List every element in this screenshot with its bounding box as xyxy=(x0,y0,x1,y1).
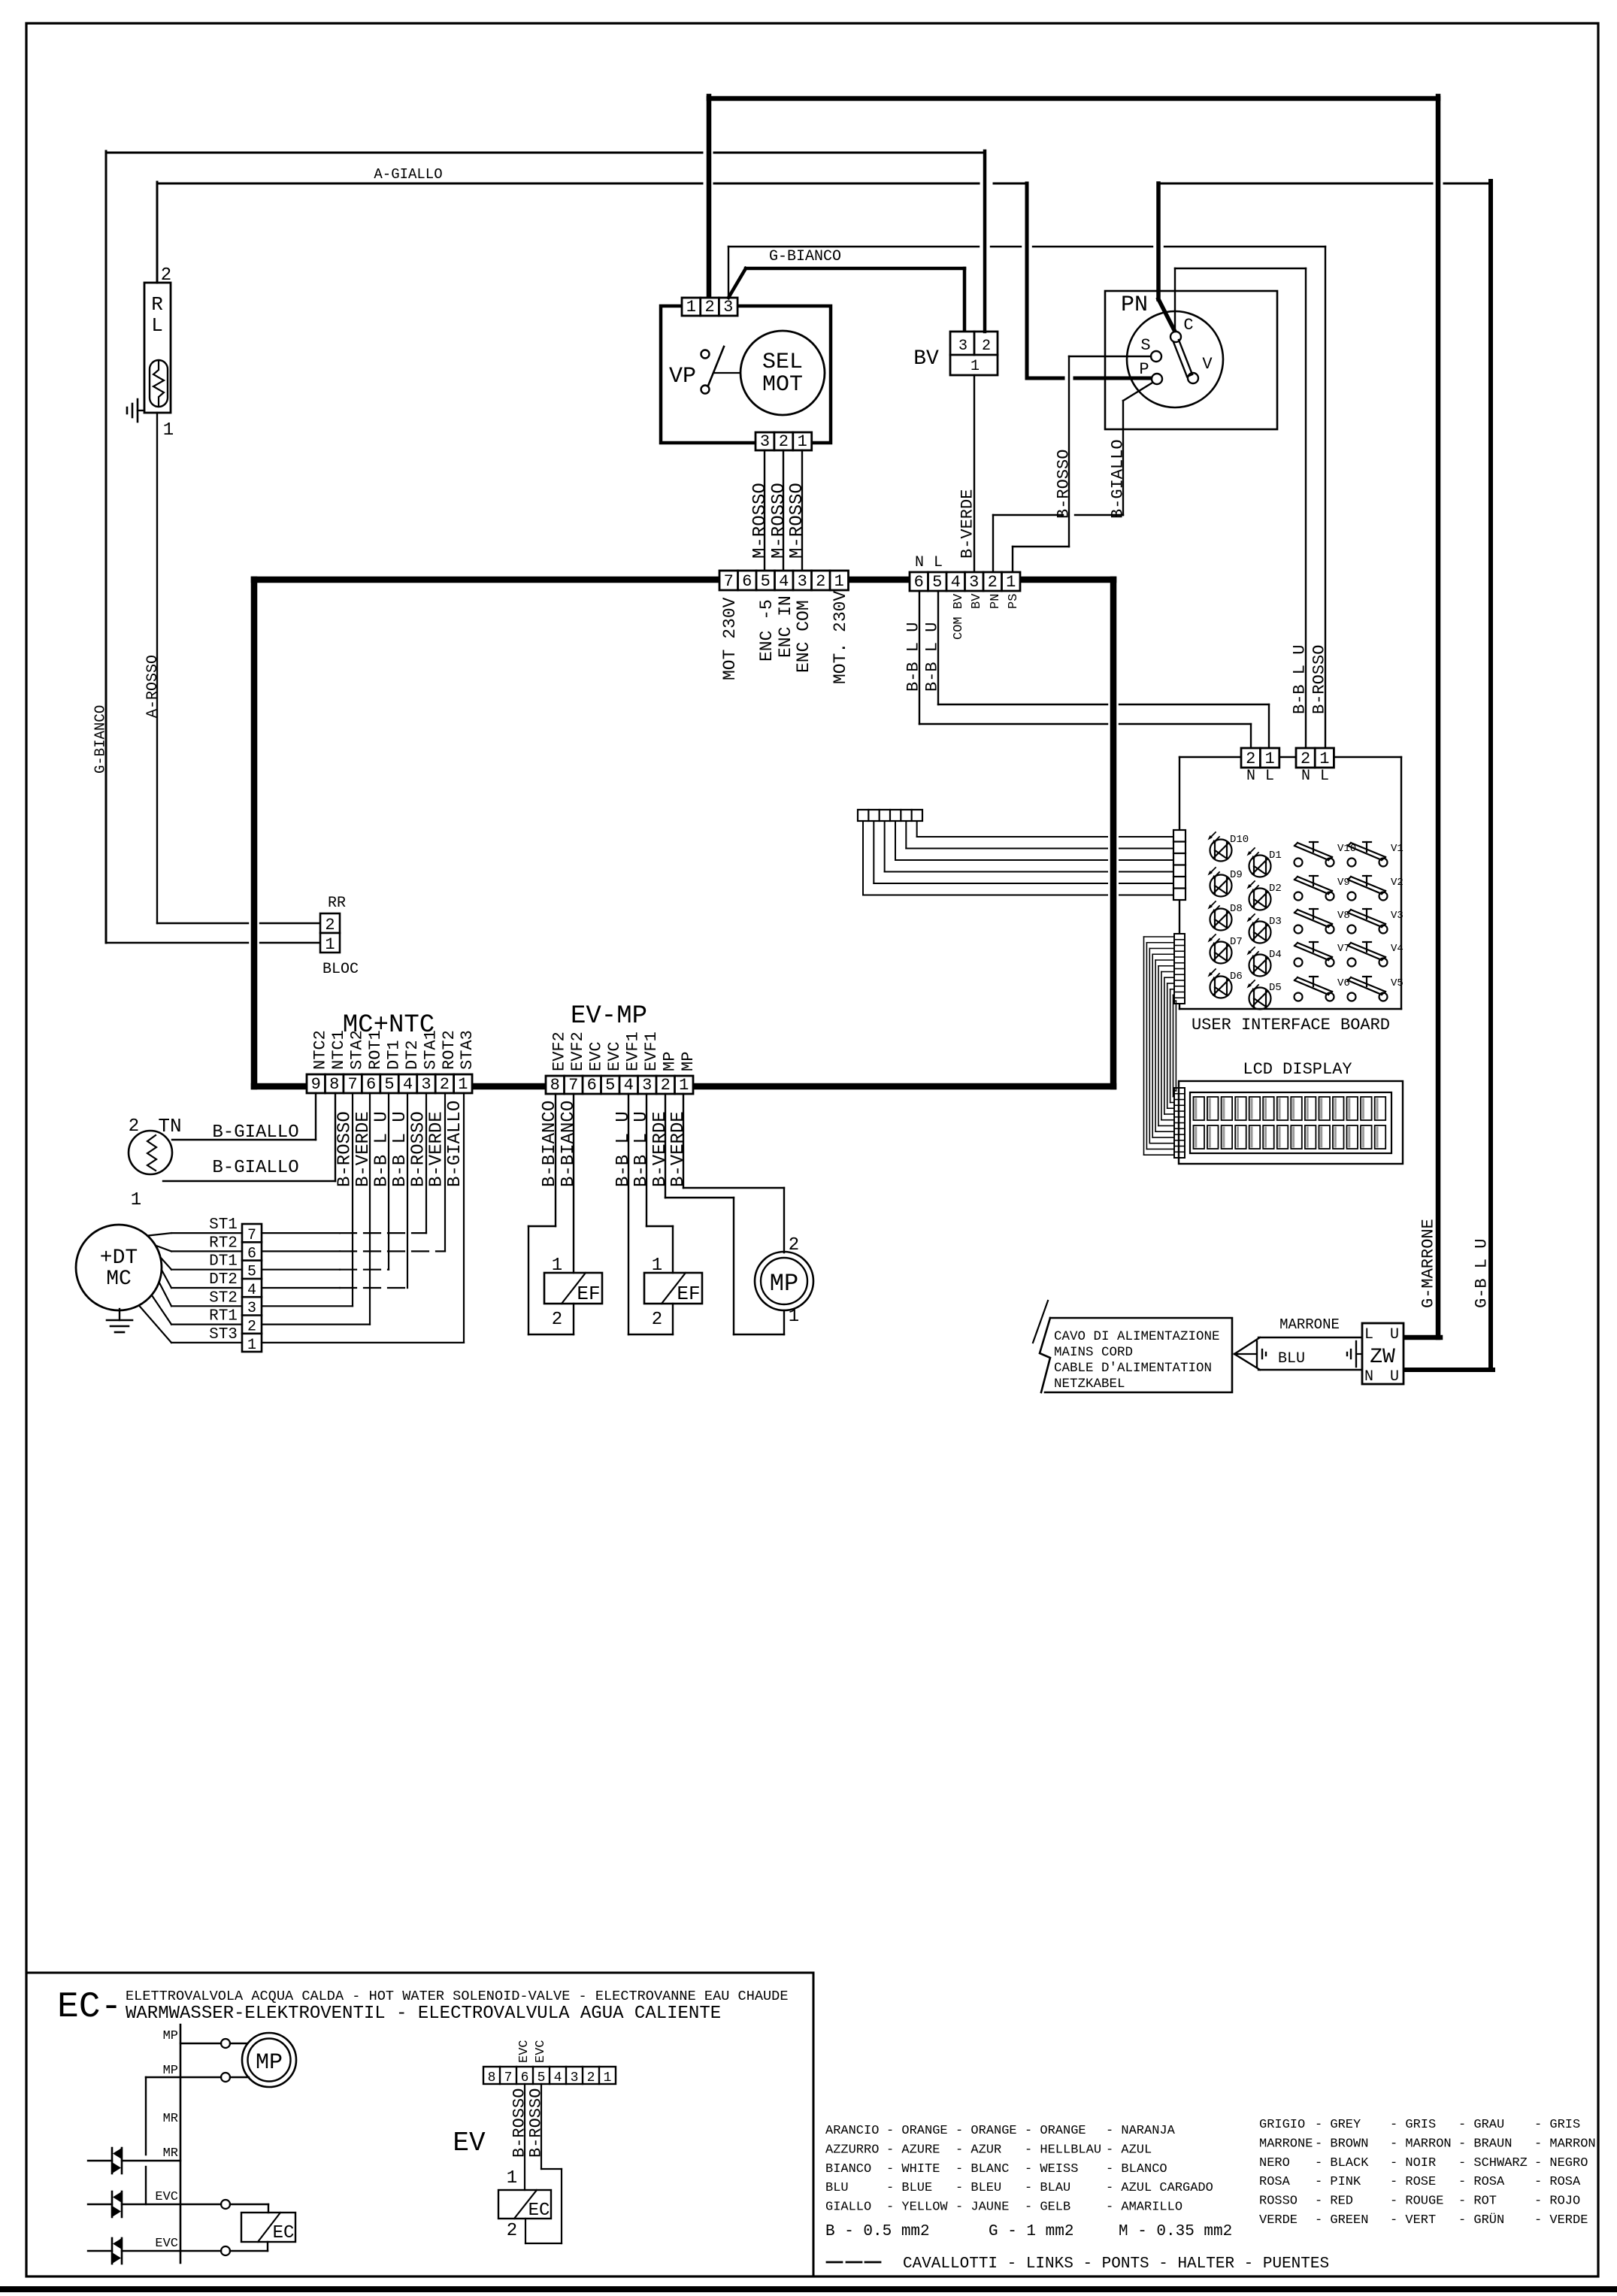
svg-text:1: 1 xyxy=(325,935,335,954)
svg-text:1: 1 xyxy=(552,1256,562,1276)
svg-text:USER INTERFACE BOARD: USER INTERFACE BOARD xyxy=(1192,1016,1390,1034)
lamp RL pin 1 label xyxy=(163,420,174,441)
svg-text:1: 1 xyxy=(604,2070,612,2085)
svg-text:NERO: NERO xyxy=(1259,2156,1290,2170)
svg-text:DT2: DT2 xyxy=(403,1040,422,1070)
svg-text:MP: MP xyxy=(661,1052,680,1071)
legend valve EC2 box xyxy=(498,2190,551,2219)
svg-text:LCD DISPLAY: LCD DISPLAY xyxy=(1243,1060,1352,1079)
svg-text:COM BV: COM BV xyxy=(952,593,966,640)
wire B-B L U cell6 label xyxy=(904,622,922,692)
suppressor ZW labels xyxy=(1364,1326,1399,1386)
wire M-ROSSO 2 xyxy=(783,450,784,571)
header ribbon lcd xyxy=(1174,1088,1185,1158)
svg-text:7: 7 xyxy=(724,572,734,591)
connector MC+NTC pin names xyxy=(311,1030,477,1070)
svg-text:1: 1 xyxy=(971,358,980,375)
svg-text:6: 6 xyxy=(914,573,924,592)
svg-text:B-VERDE: B-VERDE xyxy=(958,489,977,559)
wire S to B-ROSSO xyxy=(1013,356,1151,571)
wire A-GIALLO label xyxy=(374,166,442,183)
motor wire labels xyxy=(209,1216,238,1343)
svg-text:2: 2 xyxy=(325,916,335,934)
svg-text:- AMARILLO: - AMARILLO xyxy=(1106,2201,1182,2215)
svg-text:MARRONE: MARRONE xyxy=(1279,1316,1340,1333)
svg-text:2: 2 xyxy=(1301,750,1310,768)
svg-text:MAINS CORD: MAINS CORD xyxy=(1054,1345,1133,1360)
svg-text:- ROJO: - ROJO xyxy=(1534,2195,1580,2209)
wire M-ROSSO 1 xyxy=(764,450,765,571)
svg-text:6: 6 xyxy=(366,1075,376,1094)
svg-text:- BLEU: - BLEU xyxy=(955,2181,1001,2195)
svg-text:VP: VP xyxy=(669,364,696,389)
svg-text:B-VERDE: B-VERDE xyxy=(650,1111,671,1187)
wire EVF2 loop xyxy=(528,1094,574,1334)
svg-text:- GREY: - GREY xyxy=(1315,2118,1361,2132)
motor MC text xyxy=(100,1246,138,1291)
valve EF1 label xyxy=(577,1283,600,1305)
wire A-GIALLO horizontal xyxy=(157,183,1027,185)
mains cord arrow xyxy=(1234,1337,1260,1370)
svg-text:7: 7 xyxy=(348,1075,358,1094)
svg-text:RR: RR xyxy=(328,895,346,912)
svg-text:ENC -5: ENC -5 xyxy=(757,599,777,662)
svg-text:- MARRON: - MARRON xyxy=(1534,2137,1596,2151)
svg-text:1: 1 xyxy=(507,2168,517,2188)
pressure switch PN circle xyxy=(1127,311,1223,407)
board outline xyxy=(1179,757,1401,1009)
svg-text:- RED: - RED xyxy=(1315,2195,1353,2209)
svg-text:PN: PN xyxy=(989,594,1003,609)
svg-text:D8: D8 xyxy=(1230,903,1243,915)
svg-text:1: 1 xyxy=(1319,750,1329,768)
connector mains-board 6..1 xyxy=(910,572,1020,592)
svg-text:VERDE: VERDE xyxy=(1259,2213,1298,2228)
svg-text:L: L xyxy=(1265,768,1274,785)
svg-text:L: L xyxy=(934,554,943,571)
svg-text:1: 1 xyxy=(163,420,174,441)
svg-text:4: 4 xyxy=(779,572,789,591)
svg-text:+DT: +DT xyxy=(100,1246,138,1270)
LCD cells xyxy=(1194,1097,1386,1149)
svg-text:U: U xyxy=(1390,1368,1399,1386)
thermistor TN zigzag xyxy=(147,1135,156,1171)
svg-text:2: 2 xyxy=(161,265,171,286)
svg-text:MOT 230V: MOT 230V xyxy=(720,597,740,680)
wire A-ROSSO label xyxy=(144,655,162,718)
connector A labels below xyxy=(720,591,850,684)
legend EVC1 label xyxy=(155,2190,178,2204)
selector VP box xyxy=(661,306,831,443)
connector board N-L 1 xyxy=(1241,748,1279,785)
selector motor text xyxy=(762,350,803,398)
svg-text:BLOC: BLOC xyxy=(322,961,359,978)
svg-text:STA2: STA2 xyxy=(348,1030,367,1070)
svg-text:G - 1 mm2: G - 1 mm2 xyxy=(989,2223,1073,2240)
svg-text:L: L xyxy=(151,314,163,337)
thermistor TN circle xyxy=(129,1131,172,1174)
color table left xyxy=(825,2124,1213,2215)
svg-text:ARANCIO: ARANCIO xyxy=(825,2124,879,2138)
legend wire EVC1 xyxy=(88,2200,268,2213)
svg-text:R: R xyxy=(151,293,163,316)
svg-text:STA3: STA3 xyxy=(458,1030,477,1070)
pump MP circle xyxy=(755,1252,813,1310)
wire B-GIALLO label mid xyxy=(1108,439,1127,519)
svg-text:G-MARRONE: G-MARRONE xyxy=(1419,1219,1437,1308)
svg-text:- GRIS: - GRIS xyxy=(1534,2118,1580,2132)
svg-text:8: 8 xyxy=(550,1076,560,1095)
wire G-BIANCO top horizontal xyxy=(106,152,985,154)
svg-text:6: 6 xyxy=(742,572,752,591)
bus top horizontal xyxy=(254,577,1113,583)
svg-text:M - 0.35 mm2: M - 0.35 mm2 xyxy=(1119,2223,1232,2240)
svg-text:V4: V4 xyxy=(1391,943,1404,955)
lamp RL bulb symbol xyxy=(150,360,168,407)
legend EVC pin labels xyxy=(517,2040,548,2063)
legend valve EC2 text xyxy=(528,2201,550,2221)
svg-text:BV: BV xyxy=(913,347,939,371)
svg-text:B-GIALLO: B-GIALLO xyxy=(445,1101,465,1187)
svg-text:N: N xyxy=(1364,1368,1373,1386)
svg-text:STA1: STA1 xyxy=(421,1030,440,1070)
wire MARRONE label xyxy=(1279,1316,1340,1333)
svg-text:4: 4 xyxy=(403,1075,413,1094)
svg-text:N: N xyxy=(915,554,924,571)
legend title EV xyxy=(453,2128,486,2158)
svg-text:3: 3 xyxy=(798,572,807,591)
svg-text:G-BIANCO: G-BIANCO xyxy=(769,248,841,265)
valve EF1 box xyxy=(544,1273,602,1304)
svg-text:1: 1 xyxy=(247,1337,256,1354)
switch VP symbol xyxy=(701,347,740,394)
bus left vertical xyxy=(251,580,258,1086)
wire B-VERDE from BV1 xyxy=(974,375,975,571)
svg-text:7: 7 xyxy=(504,2070,513,2085)
board title xyxy=(1192,1016,1390,1034)
svg-text:2: 2 xyxy=(652,1310,662,1330)
svg-text:C: C xyxy=(1183,316,1193,335)
wire P to B-GIALLO xyxy=(993,383,1152,571)
svg-text:ROSA: ROSA xyxy=(1259,2175,1291,2189)
ground at motor xyxy=(107,1309,132,1332)
connector board N-L 2 xyxy=(1296,748,1334,785)
legend B-ROSSO labels xyxy=(510,2089,545,2158)
svg-text:M-ROSSO: M-ROSSO xyxy=(750,483,771,559)
svg-text:ZW: ZW xyxy=(1370,1346,1395,1369)
LCD outer box xyxy=(1179,1081,1403,1164)
legend pump MP circle xyxy=(242,2033,296,2087)
svg-text:ENC IN: ENC IN xyxy=(776,595,795,658)
wire B-B L U cell6 xyxy=(919,591,1251,748)
motor to MC+NTC links xyxy=(262,1093,464,1343)
connector RR box xyxy=(320,913,340,953)
header top-left 6pin xyxy=(858,810,922,821)
legend bus vertical xyxy=(180,2025,182,2263)
svg-text:SEL: SEL xyxy=(762,350,803,375)
svg-text:- JAUNE: - JAUNE xyxy=(955,2201,1009,2215)
motor MC circle xyxy=(76,1225,162,1310)
svg-text:MP: MP xyxy=(256,2050,283,2076)
ground at RL xyxy=(127,399,144,422)
svg-text:- SCHWARZ: - SCHWARZ xyxy=(1458,2156,1528,2170)
svg-text:MR: MR xyxy=(163,2112,178,2126)
svg-text:EF: EF xyxy=(577,1283,600,1305)
svg-text:B-BIANCO: B-BIANCO xyxy=(540,1101,560,1187)
svg-text:1: 1 xyxy=(686,298,696,317)
wire G-B L U label xyxy=(1472,1239,1491,1308)
legend wire EC pin2 loop xyxy=(525,2084,562,2243)
valve EF2 box xyxy=(644,1273,702,1304)
svg-text:2: 2 xyxy=(661,1076,671,1095)
connector VP bottom 3-2-1 xyxy=(756,432,812,451)
legend EC- title xyxy=(57,1987,122,2028)
svg-text:2: 2 xyxy=(552,1310,562,1330)
PN pin V xyxy=(1188,355,1213,383)
svg-text:AZZURRO: AZZURRO xyxy=(825,2143,879,2157)
pump MP text xyxy=(770,1270,798,1298)
svg-text:2: 2 xyxy=(440,1075,450,1094)
svg-text:1: 1 xyxy=(1264,750,1274,768)
links legend xyxy=(827,2255,1329,2273)
svg-text:2: 2 xyxy=(129,1116,139,1137)
svg-text:WARMWASSER-ELEKTROVENTIL - ELE: WARMWASSER-ELEKTROVENTIL - ELECTROVALVUL… xyxy=(126,2004,721,2024)
screen ground left xyxy=(1234,1341,1266,1367)
wire C to G-B L U xyxy=(1158,183,1491,185)
legend EVC2 label xyxy=(155,2237,178,2251)
svg-text:EVF2: EVF2 xyxy=(568,1031,587,1071)
svg-text:- VERDE: - VERDE xyxy=(1534,2213,1588,2228)
svg-text:- BLANCO: - BLANCO xyxy=(1106,2162,1167,2176)
svg-text:B - 0.5 mm2: B - 0.5 mm2 xyxy=(825,2223,930,2240)
svg-text:MARRONE: MARRONE xyxy=(1259,2137,1313,2151)
svg-text:2: 2 xyxy=(507,2221,517,2241)
legend wire MR xyxy=(88,2160,180,2161)
svg-text:MOT: MOT xyxy=(762,372,803,398)
color table right xyxy=(1259,2118,1596,2228)
svg-text:1: 1 xyxy=(458,1075,468,1094)
svg-text:ST2: ST2 xyxy=(209,1289,238,1307)
wire G-B L U vertical xyxy=(1488,181,1493,1370)
svg-text:EVC: EVC xyxy=(517,2040,531,2063)
screen ground right xyxy=(1347,1341,1362,1367)
svg-text:B-B L U: B-B L U xyxy=(613,1111,634,1187)
connector BV box xyxy=(950,332,998,375)
svg-text:ROT2: ROT2 xyxy=(440,1030,459,1070)
wire drop to PN P pin xyxy=(1027,183,1152,378)
svg-text:U: U xyxy=(1390,1326,1399,1343)
pump MP pin labels xyxy=(789,1235,799,1327)
svg-text:BV: BV xyxy=(970,593,984,609)
svg-text:2: 2 xyxy=(816,572,825,591)
svg-text:- BLACK: - BLACK xyxy=(1315,2156,1369,2170)
svg-text:- ORANGE: - ORANGE xyxy=(955,2124,1017,2138)
PN lever xyxy=(1173,340,1192,377)
svg-text:EVF1: EVF1 xyxy=(642,1031,661,1071)
svg-text:GIALLO: GIALLO xyxy=(825,2201,871,2215)
svg-text:EV-MP: EV-MP xyxy=(571,1002,647,1031)
svg-text:EVC: EVC xyxy=(587,1041,606,1071)
connector MC+NTC 9..1 xyxy=(307,1074,472,1094)
wire M-ROSSO labels xyxy=(750,483,807,559)
svg-text:B-BIANCO: B-BIANCO xyxy=(559,1101,579,1187)
svg-text:V: V xyxy=(1202,355,1213,374)
wire MP pin2 path xyxy=(683,1094,784,1253)
svg-text:MP: MP xyxy=(163,2064,178,2078)
svg-text:- BROWN: - BROWN xyxy=(1315,2137,1368,2151)
svg-text:MP: MP xyxy=(163,2029,178,2043)
valve EF2 pin labels xyxy=(652,1256,662,1330)
svg-text:4: 4 xyxy=(951,573,961,592)
svg-text:EVF1: EVF1 xyxy=(624,1031,643,1071)
wire EVF1 jog xyxy=(646,1094,673,1273)
LCD title xyxy=(1243,1060,1352,1079)
svg-text:D3: D3 xyxy=(1269,916,1282,928)
svg-text:2: 2 xyxy=(982,338,991,355)
svg-text:BIANCO: BIANCO xyxy=(825,2162,871,2176)
svg-text:B-GIALLO: B-GIALLO xyxy=(212,1158,298,1178)
connector B labels below xyxy=(952,593,1021,640)
wire G-MARRONE vertical xyxy=(1436,96,1441,1337)
svg-text:2: 2 xyxy=(1246,750,1255,768)
svg-text:7: 7 xyxy=(568,1076,578,1095)
svg-text:- AZUL: - AZUL xyxy=(1106,2143,1152,2157)
svg-text:- BLANC: - BLANC xyxy=(955,2162,1009,2176)
wires header bundle xyxy=(863,821,1172,895)
svg-text:6: 6 xyxy=(587,1076,597,1095)
svg-text:B-GIALLO: B-GIALLO xyxy=(1108,439,1127,519)
svg-text:1: 1 xyxy=(679,1076,689,1095)
pressure switch PN label xyxy=(1121,292,1148,318)
svg-text:- AZUR: - AZUR xyxy=(955,2143,1001,2157)
mains cord text xyxy=(1054,1329,1220,1392)
legend connector EV 8..1 xyxy=(483,2067,616,2085)
svg-text:D10: D10 xyxy=(1230,834,1249,846)
svg-text:- ORANGE: - ORANGE xyxy=(1025,2124,1086,2138)
selector VP label xyxy=(669,364,696,389)
wire B-ROSSO vertical right xyxy=(1325,247,1326,748)
legend triac EVC2 xyxy=(112,2238,122,2264)
svg-text:4: 4 xyxy=(554,2070,562,2085)
svg-text:M-ROSSO: M-ROSSO xyxy=(787,483,807,559)
legend line1 xyxy=(126,1989,789,2004)
legend wire MP2 xyxy=(146,2073,249,2082)
svg-text:ST3: ST3 xyxy=(209,1326,238,1343)
EC legend panel box xyxy=(28,1973,813,2276)
legend MP1 label xyxy=(163,2029,178,2043)
svg-text:NTC2: NTC2 xyxy=(311,1030,330,1070)
svg-text:B-B L U: B-B L U xyxy=(631,1111,652,1187)
svg-text:2: 2 xyxy=(779,432,789,451)
connector BV label xyxy=(913,347,939,371)
svg-text:- ROSE: - ROSE xyxy=(1390,2175,1436,2189)
connector RR label xyxy=(328,895,346,912)
mains cord box xyxy=(1033,1301,1232,1392)
legend triac MR xyxy=(112,2148,122,2173)
connector motor-board 7..1 xyxy=(719,571,849,591)
legend MP2 label xyxy=(163,2064,178,2078)
svg-text:D4: D4 xyxy=(1269,949,1282,961)
svg-text:- GRAU: - GRAU xyxy=(1458,2118,1504,2132)
connector MC+NTC wire labels xyxy=(335,1101,465,1187)
thermistor TN label xyxy=(129,1115,182,1210)
wire BLU label xyxy=(1278,1350,1305,1368)
PN pin P xyxy=(1139,360,1162,384)
svg-text:9: 9 xyxy=(311,1075,321,1094)
svg-text:RT1: RT1 xyxy=(209,1308,238,1325)
legend wire MP1 xyxy=(180,2039,247,2048)
svg-text:DT2: DT2 xyxy=(209,1271,238,1289)
svg-text:3: 3 xyxy=(642,1076,652,1095)
svg-text:G-B L U: G-B L U xyxy=(1472,1239,1491,1308)
svg-text:MOT. 230V: MOT. 230V xyxy=(831,591,850,684)
wire TN B-GIALLO label 1 xyxy=(212,1122,298,1143)
wire B-ROSSO label mid xyxy=(1054,450,1073,519)
svg-text:ENC COM: ENC COM xyxy=(794,600,813,673)
svg-text:- NOIR: - NOIR xyxy=(1390,2156,1436,2170)
svg-text:V5: V5 xyxy=(1391,977,1404,989)
legend valve EC box xyxy=(241,2213,295,2242)
wire G-BIANCO label xyxy=(92,705,108,774)
svg-text:MR: MR xyxy=(163,2146,178,2161)
header signals 6pin xyxy=(1173,830,1185,900)
svg-text:EVF2: EVF2 xyxy=(550,1031,569,1071)
switches V1-V10 xyxy=(1295,842,1404,1001)
wire BLU xyxy=(1258,1369,1362,1371)
svg-text:3: 3 xyxy=(571,2070,579,2085)
svg-text:1: 1 xyxy=(652,1256,662,1276)
svg-text:- BLAU: - BLAU xyxy=(1025,2181,1070,2195)
wire TN B-GIALLO label 2 xyxy=(212,1158,298,1178)
svg-text:- BRAUN: - BRAUN xyxy=(1458,2137,1512,2151)
wire EVF1 loop xyxy=(628,1094,673,1334)
svg-text:- ROSA: - ROSA xyxy=(1458,2175,1505,2189)
wire to ZW U bottom xyxy=(1400,1368,1493,1372)
svg-text:D9: D9 xyxy=(1230,869,1243,881)
svg-text:ROSSO: ROSSO xyxy=(1259,2195,1298,2209)
svg-text:D2: D2 xyxy=(1269,883,1282,895)
svg-text:1: 1 xyxy=(789,1307,799,1327)
connector VP top 1-2-3 xyxy=(682,298,737,317)
svg-text:N: N xyxy=(1301,768,1310,785)
svg-text:TN: TN xyxy=(158,1115,181,1137)
svg-text:DT1: DT1 xyxy=(384,1040,403,1070)
svg-text:1: 1 xyxy=(798,432,807,451)
svg-text:3: 3 xyxy=(723,298,733,317)
svg-text:ST1: ST1 xyxy=(209,1216,238,1234)
wire G-MARRONE label xyxy=(1419,1219,1437,1308)
svg-text:4: 4 xyxy=(624,1076,634,1095)
connector motor 7..1 vertical xyxy=(242,1224,262,1354)
lamp RL pin 2 label xyxy=(161,265,171,286)
wire top loop horizontal xyxy=(709,96,1438,101)
svg-text:- ROSA: - ROSA xyxy=(1534,2175,1581,2189)
svg-text:5: 5 xyxy=(761,572,771,591)
svg-text:A-ROSSO: A-ROSSO xyxy=(144,655,162,718)
wire MARRONE xyxy=(1258,1337,1362,1338)
svg-text:- ROT: - ROT xyxy=(1458,2195,1497,2209)
svg-text:- WEISS: - WEISS xyxy=(1025,2162,1078,2176)
wire B-VERDE label xyxy=(958,489,977,559)
svg-text:B-ROSSO: B-ROSSO xyxy=(1054,450,1073,519)
svg-text:BLU: BLU xyxy=(1278,1350,1305,1368)
PN pin S xyxy=(1140,336,1161,362)
legend wire EC pin1 xyxy=(524,2084,525,2190)
svg-text:CAVO DI ALIMENTAZIONE: CAVO DI ALIMENTAZIONE xyxy=(1054,1329,1220,1344)
title MC+NTC xyxy=(343,1011,435,1040)
wire to RR 2 xyxy=(157,922,320,924)
legend wire EVC2 xyxy=(88,2242,268,2255)
